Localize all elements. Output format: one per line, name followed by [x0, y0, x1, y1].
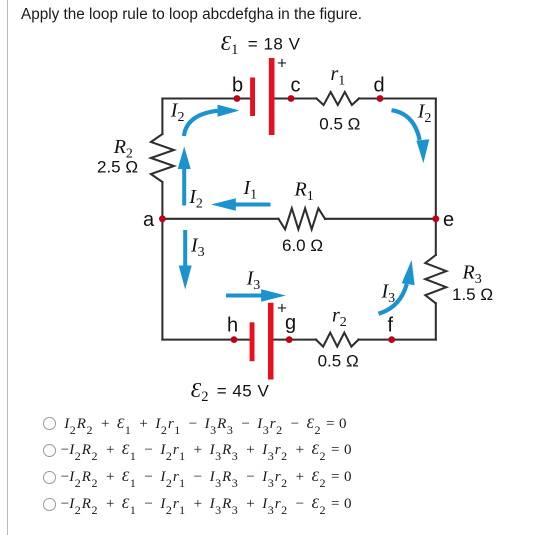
wire top-left: b to left corner — [162, 97, 249, 99]
wire bottom-right: corner to r2 — [359, 339, 436, 341]
node h — [231, 336, 238, 343]
node d — [377, 95, 384, 102]
current arrow I1 horizontal pointing left — [236, 203, 271, 207]
svg-text:b: b — [232, 74, 243, 96]
svg-text:c: c — [291, 74, 301, 96]
left page border line — [7, 0, 8, 535]
svg-text:= 18 V: = 18 V — [248, 35, 301, 54]
svg-text:I3: I3 — [190, 235, 205, 261]
wire bottom-left: battery E2 to left corner — [162, 339, 249, 341]
svg-text:0.5 Ω: 0.5 Ω — [319, 115, 360, 134]
svg-text:g: g — [285, 312, 296, 334]
current arrow I2 curved at node d — [392, 110, 420, 140]
svg-text:I3: I3 — [246, 268, 261, 294]
svg-text:2.5 Ω: 2.5 Ω — [97, 158, 138, 177]
wire left side lower (R2 to bottom corner) — [161, 182, 163, 340]
battery E1 negative plate — [250, 78, 255, 117]
svg-text:f: f — [388, 314, 394, 336]
answer option 1 — [43, 416, 347, 433]
svg-text:I1: I1 — [243, 177, 258, 203]
svg-text:R1: R1 — [294, 178, 314, 204]
svg-text:= 45 V: = 45 V — [217, 382, 270, 401]
svg-text:r2: r2 — [332, 305, 347, 331]
current arrow I2 vertical on left — [182, 169, 186, 206]
svg-text:+: + — [277, 54, 287, 73]
answer option 2 — [43, 442, 351, 459]
svg-text:r1: r1 — [331, 63, 346, 89]
problem statement text — [21, 6, 362, 24]
svg-text:1.5 Ω: 1.5 Ω — [452, 285, 493, 304]
current arrow I3 curved near f — [379, 284, 407, 314]
wire right side upper (corner to R3) — [435, 99, 437, 256]
wire top-right: r1 to corner d-e — [359, 97, 436, 99]
svg-text:I3: I3 — [381, 281, 396, 307]
svg-text:0.5 Ω: 0.5 Ω — [318, 351, 359, 370]
wire middle branch R1 to e — [325, 218, 436, 220]
resistor r1 — [317, 92, 360, 105]
node e — [432, 215, 439, 222]
battery E2 negative plate — [250, 322, 255, 361]
svg-text:6.0 Ω: 6.0 Ω — [282, 236, 323, 255]
battery E1 positive plate — [269, 58, 275, 135]
wire bottom middle: r2 to battery E2 — [274, 339, 316, 341]
wire middle branch a to R1 — [162, 218, 278, 220]
svg-text:a: a — [143, 209, 155, 231]
node f — [388, 336, 395, 343]
node g — [286, 336, 293, 343]
svg-text:d: d — [374, 74, 385, 96]
svg-text:h: h — [227, 314, 238, 336]
svg-text:R3: R3 — [462, 262, 482, 288]
wire left side upper (corner to R2) — [161, 99, 163, 135]
svg-text:Ɛ2: Ɛ2 — [191, 378, 209, 405]
current arrow I2 curved at node b — [184, 111, 218, 136]
wire right side lower (R3 to bottom corner) — [435, 303, 437, 339]
resistor R1 — [279, 208, 326, 229]
svg-text:I2: I2 — [188, 186, 203, 212]
svg-text:Ɛ1: Ɛ1 — [221, 31, 239, 58]
svg-text:e: e — [443, 209, 454, 231]
resistor R2 — [151, 134, 174, 182]
resistor R3 — [425, 255, 446, 303]
answer option 3 — [43, 469, 351, 486]
current arrow I3 vertical below node a — [183, 230, 187, 266]
current arrow I3 horizontal pointing right — [226, 294, 262, 298]
node b — [234, 95, 241, 102]
svg-text:I2: I2 — [417, 101, 432, 127]
battery E2 positive plate — [268, 303, 274, 380]
resistor r2 — [316, 333, 359, 347]
wire top middle: battery to r1 — [275, 97, 317, 99]
answer option 4 — [43, 496, 351, 513]
svg-text:I2: I2 — [170, 99, 185, 125]
node a — [159, 215, 166, 222]
node c — [288, 95, 295, 102]
